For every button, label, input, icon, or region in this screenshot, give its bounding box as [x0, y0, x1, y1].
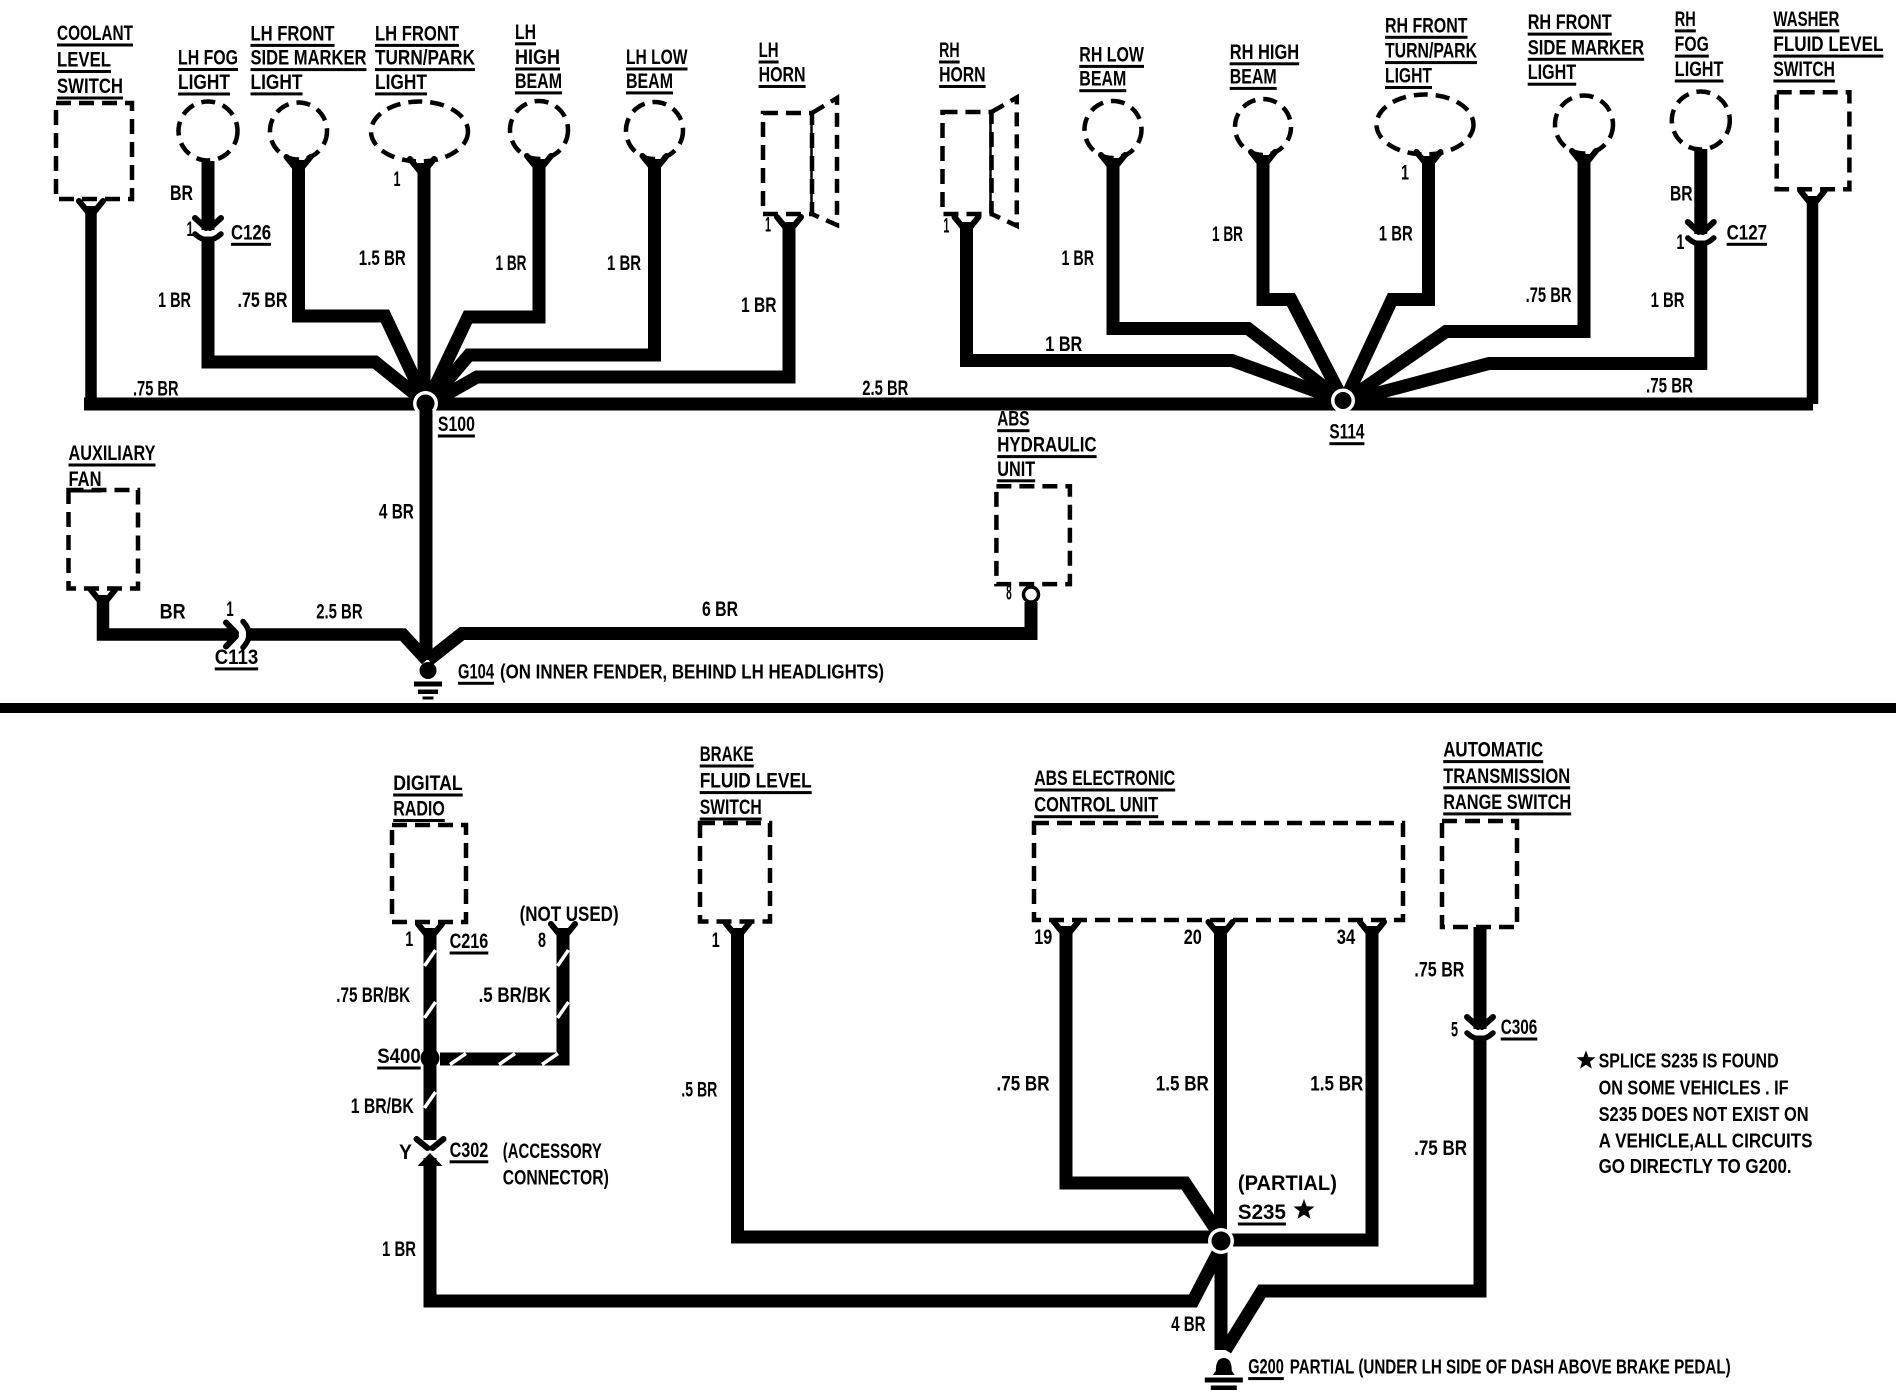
splice S400 [421, 1049, 440, 1068]
svg-text:.75 BR/BK: .75 BR/BK [336, 984, 410, 1007]
pin LH side marker [287, 157, 311, 170]
svg-text:ABS: ABS [997, 408, 1029, 431]
svg-text:HIGH: HIGH [515, 46, 560, 69]
svg-text:1: 1 [1401, 161, 1409, 184]
star S235 [1294, 1199, 1315, 1219]
coolant level switch box [56, 103, 132, 199]
wire LH side marker .75 BR [299, 160, 426, 401]
svg-text:1: 1 [765, 214, 771, 237]
pin RH high beam [1251, 152, 1275, 165]
svg-text:ABS ELECTRONIC: ABS ELECTRONIC [1034, 767, 1175, 790]
wire 1 BR C302 to S235 [430, 1158, 1221, 1301]
pin washer switch [1801, 191, 1825, 204]
wire .75 BR pin 19 [1066, 926, 1221, 1237]
svg-text:1: 1 [405, 928, 413, 951]
pin LH low beam [643, 156, 667, 169]
svg-text:COOLANT: COOLANT [57, 22, 133, 45]
svg-text:1 BR: 1 BR [1651, 289, 1685, 312]
svg-text:1 BR: 1 BR [1045, 333, 1082, 356]
svg-text:6 BR: 6 BR [702, 598, 738, 621]
svg-text:HORN: HORN [939, 64, 986, 87]
wire LH turn/park 1.5 BR [418, 163, 431, 400]
svg-text:1 BR: 1 BR [158, 289, 191, 312]
svg-text:WASHER: WASHER [1773, 8, 1839, 31]
svg-text:.5 BR/BK: .5 BR/BK [479, 984, 551, 1007]
pin 20 ABS ECU [1209, 922, 1233, 935]
svg-text:(NOT USED): (NOT USED) [520, 903, 619, 926]
svg-text:1 BR: 1 BR [382, 1238, 416, 1261]
svg-text:ON SOME VEHICLES . IF: ON SOME VEHICLES . IF [1599, 1077, 1789, 1099]
ground G200 [1213, 1358, 1235, 1375]
wire 1.5 BR pin 20 [1214, 926, 1227, 1240]
svg-text:.75 BR: .75 BR [1646, 374, 1693, 397]
svg-text:RH LOW: RH LOW [1079, 43, 1144, 66]
LH high beam circle [510, 101, 568, 159]
svg-text:HORN: HORN [759, 64, 806, 87]
svg-text:LIGHT: LIGHT [1675, 58, 1724, 81]
star note [1577, 1051, 1596, 1069]
svg-text:LEVEL: LEVEL [57, 49, 111, 72]
svg-text:1 BR/BK: 1 BR/BK [351, 1095, 414, 1118]
svg-text:BRAKE: BRAKE [700, 743, 754, 766]
LH fog light circle [179, 102, 238, 161]
wire RH fog 1 BR [1348, 149, 1701, 401]
svg-text:LIGHT: LIGHT [375, 71, 427, 94]
ground bus wire S100..S114 (.75 BR / 2.5 BR / .75 BR) [84, 398, 1813, 411]
svg-text:.5 BR: .5 BR [681, 1079, 717, 1102]
brake fluid level switch box [700, 823, 770, 922]
svg-text:C127: C127 [1727, 221, 1767, 244]
svg-text:LIGHT: LIGHT [1385, 65, 1432, 88]
svg-text:SIDE MARKER: SIDE MARKER [251, 47, 367, 70]
svg-text:RH HIGH: RH HIGH [1230, 41, 1300, 64]
svg-text:4 BR: 4 BR [379, 500, 414, 523]
wire RH high beam 1 BR [1263, 155, 1342, 398]
pin 1 LH turn/park [410, 159, 434, 172]
wire LH fog 1 BR [208, 161, 425, 402]
svg-text:S235 DOES NOT EXIST ON: S235 DOES NOT EXIST ON [1599, 1104, 1809, 1126]
connector C113 [236, 627, 246, 643]
svg-text:4 BR: 4 BR [1171, 1313, 1206, 1336]
svg-text:BR: BR [170, 182, 193, 205]
wire .5 BR brake [738, 928, 1216, 1237]
svg-text:SWITCH: SWITCH [700, 796, 762, 819]
connector C302 [421, 1148, 439, 1154]
wire 1 BR/BK S400 to C302 [424, 1058, 437, 1140]
wire 6 BR [429, 602, 1032, 660]
automatic transmission range switch box [1442, 821, 1517, 927]
svg-text:.75 BR: .75 BR [997, 1073, 1050, 1096]
pin 1 brake switch [726, 923, 750, 936]
pin RH side marker [1572, 151, 1596, 164]
wire washer .75 BR [1807, 196, 1819, 404]
wire .75 BR ATRS [1226, 927, 1481, 1350]
LH low beam circle [626, 102, 683, 159]
svg-text:RH FRONT: RH FRONT [1528, 11, 1612, 34]
RH low beam circle [1085, 101, 1142, 158]
svg-text:1 BR: 1 BR [607, 252, 641, 275]
svg-text:LIGHT: LIGHT [178, 71, 230, 94]
svg-text:LH: LH [759, 39, 779, 62]
svg-text:UNIT: UNIT [997, 458, 1035, 481]
wire LH horn 1 BR [433, 222, 789, 402]
svg-text:CONNECTOR): CONNECTOR) [503, 1166, 609, 1189]
svg-text:(ON INNER FENDER, BEHIND LH HE: (ON INNER FENDER, BEHIND LH HEADLIGHTS) [500, 661, 884, 683]
ABS hydraulic unit box [996, 486, 1070, 584]
svg-text:20: 20 [1184, 926, 1202, 949]
LH horn flare [812, 98, 837, 225]
wire LH low beam 1 BR [430, 159, 655, 401]
svg-text:1: 1 [1676, 231, 1684, 254]
svg-text:CONTROL UNIT: CONTROL UNIT [1034, 794, 1158, 817]
svg-text:G200: G200 [1248, 1356, 1284, 1379]
svg-text:1 BR: 1 BR [1379, 223, 1413, 246]
svg-text:1: 1 [187, 218, 194, 241]
svg-text:GO DIRECTLY TO G200.: GO DIRECTLY TO G200. [1599, 1156, 1792, 1178]
connector C126 [200, 230, 217, 237]
svg-text:RH FRONT: RH FRONT [1385, 14, 1468, 37]
wire .75 BR/BK radio [424, 928, 437, 1052]
svg-text:LIGHT: LIGHT [251, 71, 303, 94]
svg-text:TRANSMISSION: TRANSMISSION [1443, 765, 1570, 788]
svg-text:TURN/PARK: TURN/PARK [1385, 40, 1477, 63]
svg-text:1: 1 [943, 215, 949, 238]
ground G104 [420, 662, 437, 679]
svg-text:.75 BR: .75 BR [1414, 1137, 1467, 1160]
splice S235 [1208, 1228, 1234, 1254]
wire coolant .75 BR [85, 206, 97, 404]
RH horn body [943, 112, 992, 214]
svg-text:2.5 BR: 2.5 BR [316, 601, 362, 624]
svg-text:1.5 BR: 1.5 BR [1310, 1073, 1363, 1096]
pin 1 RH turn/park [1417, 152, 1441, 165]
svg-text:(PARTIAL): (PARTIAL) [1238, 1172, 1337, 1195]
wire RH horn 1 BR [967, 222, 1341, 400]
digital radio box [392, 825, 466, 922]
svg-text:8: 8 [538, 929, 546, 952]
ABS electronic control unit box [1034, 823, 1403, 920]
auxiliary fan box [69, 490, 139, 589]
pin 34 ABS ECU [1360, 922, 1384, 935]
svg-text:1: 1 [226, 598, 234, 621]
svg-text:FAN: FAN [69, 468, 102, 491]
wire 1.5 BR pin 34 [1228, 926, 1372, 1240]
svg-text:BR: BR [1670, 183, 1693, 206]
wire S235 to G200 4 BR [1215, 1242, 1228, 1350]
svg-text:1: 1 [712, 929, 720, 952]
svg-text:LH LOW: LH LOW [626, 46, 688, 69]
splice S100 [413, 391, 438, 416]
svg-text:1.5 BR: 1.5 BR [359, 247, 406, 270]
svg-text:C302: C302 [450, 1139, 489, 1162]
svg-text:LH FRONT: LH FRONT [375, 22, 459, 45]
svg-text:RANGE SWITCH: RANGE SWITCH [1443, 791, 1571, 814]
svg-text:S235: S235 [1238, 1201, 1286, 1224]
svg-text:.75 BR: .75 BR [1414, 958, 1464, 981]
svg-text:SWITCH: SWITCH [1773, 58, 1835, 81]
wire RH turn/park 1 BR [1346, 156, 1429, 398]
svg-text:SPLICE S235 IS FOUND: SPLICE S235 IS FOUND [1599, 1051, 1779, 1073]
svg-text:.75 BR: .75 BR [238, 289, 288, 312]
svg-text:A VEHICLE,ALL CIRCUITS: A VEHICLE,ALL CIRCUITS [1599, 1130, 1813, 1152]
svg-text:PARTIAL (UNDER LH SIDE OF DASH: PARTIAL (UNDER LH SIDE OF DASH ABOVE BRA… [1290, 1357, 1731, 1379]
svg-text:LH FRONT: LH FRONT [251, 22, 335, 45]
svg-text:1 BR: 1 BR [1212, 223, 1243, 246]
svg-text:C126: C126 [231, 221, 271, 244]
svg-text:LH FOG: LH FOG [178, 47, 238, 70]
svg-text:BEAM: BEAM [1079, 68, 1126, 91]
svg-text:DIGITAL: DIGITAL [393, 772, 463, 795]
pin 8 ABS hydraulic unit [1024, 587, 1039, 602]
svg-text:FLUID LEVEL: FLUID LEVEL [1773, 33, 1883, 56]
RH fog light circle [1672, 92, 1730, 150]
wire 4 BR S100 to G104 [420, 410, 433, 660]
svg-text:.75 BR: .75 BR [1526, 284, 1572, 307]
svg-text:TURN/PARK: TURN/PARK [375, 47, 475, 70]
svg-text:FLUID LEVEL: FLUID LEVEL [700, 770, 812, 793]
svg-text:S100: S100 [438, 413, 475, 436]
svg-text:34: 34 [1337, 926, 1356, 949]
svg-text:1: 1 [394, 168, 401, 191]
svg-text:(ACCESSORY: (ACCESSORY [503, 1140, 602, 1163]
RH front side marker circle [1555, 96, 1613, 154]
svg-text:S114: S114 [1329, 421, 1364, 444]
wire .5 BR/BK not-used [440, 928, 563, 1059]
svg-text:FOG: FOG [1675, 33, 1709, 56]
svg-text:1.5 BR: 1.5 BR [1156, 1073, 1209, 1096]
svg-text:HYDRAULIC: HYDRAULIC [997, 434, 1096, 457]
wire LH high beam 1 BR [429, 159, 539, 399]
pin 1 LH horn [777, 217, 801, 230]
divider line [0, 703, 1896, 713]
svg-text:19: 19 [1034, 926, 1052, 949]
svg-text:BEAM: BEAM [626, 70, 673, 93]
RH high beam circle [1235, 99, 1291, 155]
pin coolant level switch [79, 201, 103, 214]
wire RH low beam 1 BR [1113, 158, 1341, 400]
svg-text:AUXILIARY: AUXILIARY [69, 442, 156, 465]
svg-text:1 BR: 1 BR [1062, 247, 1095, 270]
svg-text:RH: RH [1675, 8, 1696, 31]
svg-text:C113: C113 [215, 646, 259, 669]
svg-text:1 BR: 1 BR [741, 294, 777, 317]
wire RH side marker .75 BR [1347, 154, 1584, 400]
svg-text:AUTOMATIC: AUTOMATIC [1443, 739, 1543, 762]
connector C127 [1692, 234, 1709, 241]
svg-text:RH: RH [939, 39, 960, 62]
svg-text:BEAM: BEAM [515, 70, 562, 93]
RH horn flare [992, 98, 1017, 226]
pin RH low beam [1101, 155, 1125, 168]
svg-text:RADIO: RADIO [393, 798, 445, 821]
connector C306 [1472, 1029, 1489, 1036]
wire aux fan BR/2.5 BR [103, 595, 427, 660]
svg-text:G104: G104 [458, 660, 494, 683]
svg-text:SIDE MARKER: SIDE MARKER [1528, 36, 1644, 59]
svg-text:S400: S400 [377, 1045, 421, 1068]
svg-text:BEAM: BEAM [1230, 65, 1277, 88]
pin 1 connector C216 [418, 924, 442, 937]
svg-text:.75 BR: .75 BR [133, 378, 179, 401]
svg-text:8: 8 [1006, 581, 1012, 604]
svg-text:Y: Y [399, 1141, 412, 1164]
LH front side marker circle [270, 103, 327, 160]
RH front turn/park ellipse [1377, 95, 1474, 155]
LH horn body [763, 113, 812, 214]
svg-text:5: 5 [1451, 1019, 1458, 1042]
svg-text:2.5 BR: 2.5 BR [862, 377, 908, 400]
pin 8 not used [551, 924, 575, 937]
pin 1 RH horn [955, 217, 979, 230]
pin 19 ABS ECU [1054, 922, 1078, 935]
svg-text:SWITCH: SWITCH [57, 75, 123, 98]
splice S114 [1331, 389, 1355, 413]
pin LH high beam [527, 156, 551, 169]
svg-text:C216: C216 [450, 930, 489, 953]
pin auxiliary fan [91, 590, 115, 603]
LH front turn/park ellipse [371, 102, 468, 162]
svg-text:LIGHT: LIGHT [1528, 61, 1577, 84]
svg-text:1 BR: 1 BR [496, 252, 527, 275]
washer fluid level switch box [1777, 92, 1850, 189]
svg-text:C306: C306 [1501, 1016, 1538, 1039]
svg-text:LH: LH [515, 21, 536, 44]
svg-text:BR: BR [160, 601, 186, 624]
